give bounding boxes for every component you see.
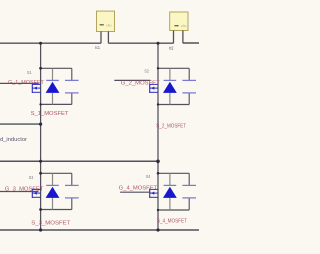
svg-text:G_2_MOSFET: G_2_MOSFET	[121, 80, 161, 86]
junction J10	[39, 172, 42, 175]
svg-text:S_2_MOSFET: S_2_MOSFET	[156, 124, 186, 130]
wire mid rail node B	[0, 160, 158, 162]
diode D1 cathode bar	[46, 79, 59, 81]
diode D3 bottom stub	[52, 198, 54, 210]
transistor glyph of S2 source stroke	[150, 91, 158, 93]
current sensor Ic1	[97, 11, 115, 31]
transistor glyph of S3 drain stroke	[32, 188, 40, 190]
junction J1	[39, 42, 42, 45]
capacitor C1 bottom plate	[65, 92, 79, 94]
svg-text:S_4_MOSFET: S_4_MOSFET	[157, 219, 188, 225]
transistor glyph of S4 arrow	[151, 192, 154, 195]
svg-text:du: du	[106, 23, 112, 27]
mosfet cell S4	[119, 173, 196, 224]
svg-text:S_3_MOSFET: S_3_MOSFET	[31, 220, 71, 226]
diode D4 triangle	[163, 187, 177, 198]
wire top bus right segment	[183, 42, 199, 44]
junction J14	[39, 228, 42, 231]
capacitor C2 bottom plate	[182, 92, 196, 94]
capacitor C4 top plate	[182, 184, 196, 186]
capacitor C3 bottom plate	[65, 197, 79, 199]
transistor glyph of S3 arrow	[34, 192, 37, 195]
junction J2	[157, 42, 160, 45]
wire bottom rail of S4	[158, 209, 189, 211]
wire top rail of S4	[158, 172, 189, 174]
transistor glyph of S1 middle stroke	[32, 87, 40, 89]
wire top rail of S1	[41, 67, 72, 69]
capacitor C2 top plate	[182, 79, 196, 81]
junction J11	[157, 172, 160, 175]
pin 2 of sensor Ic1	[107, 32, 109, 44]
svg-text:du: du	[181, 24, 187, 28]
svg-text:S1: S1	[27, 70, 32, 76]
wire gate of S3	[0, 191, 39, 193]
mosfet cell S2	[114, 68, 196, 129]
transistor glyph of S4 drain stroke	[150, 188, 158, 190]
wire gate of S1	[0, 82, 39, 84]
capacitor C2 top stub	[188, 68, 190, 80]
wire left leg vertical	[40, 43, 42, 230]
wire gate of S4	[120, 191, 150, 193]
diode D3 top stub	[52, 173, 54, 185]
transistor glyph of S2 gate bar	[149, 84, 151, 93]
junction J7	[39, 123, 42, 126]
svg-text:d_inductor: d_inductor	[0, 137, 27, 143]
mosfet cell S3	[0, 173, 79, 226]
transistor glyph of S3 source stroke	[32, 196, 40, 198]
current sensor Ic2	[170, 12, 188, 31]
wire bottom bus	[0, 229, 199, 231]
diode D4 cathode bar	[164, 184, 177, 186]
capacitor C1 top stub	[71, 68, 73, 80]
transistor glyph of S3 middle stroke	[32, 192, 40, 194]
transistor glyph of S2 middle stroke	[150, 87, 158, 89]
wire gate of S2	[114, 79, 150, 81]
mosfet cell S1	[0, 68, 79, 117]
transistor glyph of S4 source stroke	[150, 196, 158, 198]
capacitor C1 top plate	[65, 79, 79, 81]
diode D2 bottom stub	[169, 93, 171, 105]
capacitor C3 bottom stub	[71, 198, 73, 210]
wire top rail of S3	[41, 172, 72, 174]
capacitor C3 top stub	[71, 173, 73, 185]
junction J5	[39, 103, 41, 105]
junction J3	[39, 67, 42, 70]
transistor glyph of S1 gate bar	[31, 84, 33, 93]
pin 1 of sensor Ic2	[173, 31, 175, 44]
svg-text:G_4_MOSFET: G_4_MOSFET	[119, 186, 158, 192]
wire bottom rail of S1	[41, 103, 72, 105]
wire bottom rail of S3	[41, 209, 72, 211]
pin 2 of sensor Ic2	[182, 31, 184, 44]
transistor glyph of S1 source stroke	[32, 91, 40, 93]
junction J13	[157, 209, 159, 211]
wire top bus left segment	[0, 42, 101, 44]
diode D4 bottom stub	[169, 198, 171, 210]
transistor glyph of S3 gate bar	[31, 189, 33, 198]
junction J12	[39, 208, 42, 211]
transistor glyph of S4 gate bar	[149, 189, 151, 198]
capacitor C2 bottom stub	[188, 93, 190, 105]
diode D1 bottom stub	[52, 93, 54, 105]
transistor glyph of S1 drain stroke	[32, 83, 40, 85]
svg-text:G_3_MOSFET: G_3_MOSFET	[5, 187, 44, 193]
wire top rail of S2	[158, 67, 189, 69]
capacitor C4 bottom stub	[188, 198, 190, 210]
junction J9	[156, 160, 160, 164]
capacitor C1 bottom stub	[71, 93, 73, 105]
svg-text:Ic2: Ic2	[169, 45, 174, 50]
svg-text:S2: S2	[144, 69, 149, 75]
transistor glyph of S4 middle stroke	[150, 192, 158, 194]
diode D1 triangle	[46, 82, 60, 93]
diode D4 top stub	[169, 173, 171, 185]
pin 1 of sensor Ic1	[100, 32, 102, 44]
wire load node A	[0, 123, 41, 125]
diode D3 triangle	[46, 187, 60, 198]
transistor glyph of S1 arrow	[34, 87, 37, 90]
svg-text:G_1_MOSFET: G_1_MOSFET	[8, 80, 45, 86]
transistor glyph of S2 arrow	[151, 87, 154, 90]
junction J8	[39, 160, 42, 163]
svg-text:S_1_MOSFET: S_1_MOSFET	[31, 111, 70, 117]
capacitor C4 bottom plate	[182, 197, 196, 199]
capacitor C4 top stub	[188, 173, 190, 185]
junction J6	[157, 103, 159, 105]
junction J4	[157, 67, 159, 69]
diode D2 triangle	[163, 82, 177, 93]
svg-text:S3: S3	[29, 175, 34, 181]
svg-text:Ic1: Ic1	[95, 45, 100, 50]
diode D1 top stub	[52, 68, 54, 80]
junction J15	[156, 228, 159, 231]
diode D2 cathode bar	[164, 79, 177, 81]
wire top bus middle segment	[108, 42, 173, 44]
diode D3 cathode bar	[46, 184, 59, 186]
wire bottom rail of S2	[158, 104, 189, 106]
diode D2 top stub	[169, 68, 171, 80]
capacitor C3 top plate	[65, 184, 79, 186]
transistor glyph of S2 drain stroke	[150, 83, 158, 85]
wire right leg vertical	[157, 43, 159, 230]
svg-text:S4: S4	[146, 174, 151, 180]
